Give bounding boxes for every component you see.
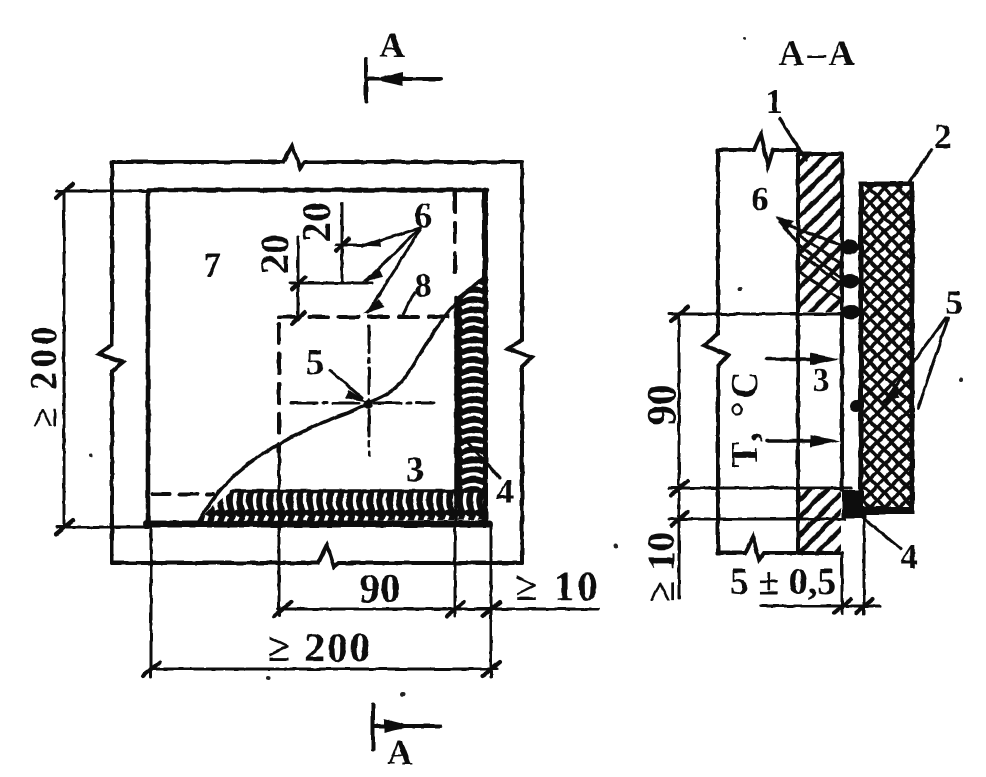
svg-text:1: 1 xyxy=(765,82,783,121)
svg-text:2: 2 xyxy=(934,117,952,156)
svg-text:3: 3 xyxy=(406,449,424,489)
svg-text:T, °C: T, °C xyxy=(724,368,766,467)
svg-text:3: 3 xyxy=(813,362,830,399)
svg-text:90: 90 xyxy=(638,385,684,426)
svg-text:≥ 10: ≥ 10 xyxy=(515,563,601,609)
svg-text:5: 5 xyxy=(945,283,963,322)
svg-text:7: 7 xyxy=(203,245,221,285)
svg-text:5 ± 0,5: 5 ± 0,5 xyxy=(730,561,836,603)
svg-text:A: A xyxy=(387,733,413,772)
svg-text:20: 20 xyxy=(252,234,297,274)
svg-text:≥ 200: ≥ 200 xyxy=(24,322,65,427)
svg-text:6: 6 xyxy=(752,181,769,218)
svg-text:5: 5 xyxy=(306,342,324,382)
svg-text:8: 8 xyxy=(414,266,432,305)
svg-text:A: A xyxy=(379,26,405,65)
svg-text:4: 4 xyxy=(900,537,918,576)
svg-text:20: 20 xyxy=(294,202,339,242)
svg-text:≥ 200: ≥ 200 xyxy=(268,624,372,670)
svg-text:A–A: A–A xyxy=(779,33,858,73)
svg-text:6: 6 xyxy=(414,196,432,235)
svg-text:90: 90 xyxy=(360,565,401,611)
svg-text:4: 4 xyxy=(496,472,514,511)
svg-text:≥ 10: ≥ 10 xyxy=(640,532,683,602)
